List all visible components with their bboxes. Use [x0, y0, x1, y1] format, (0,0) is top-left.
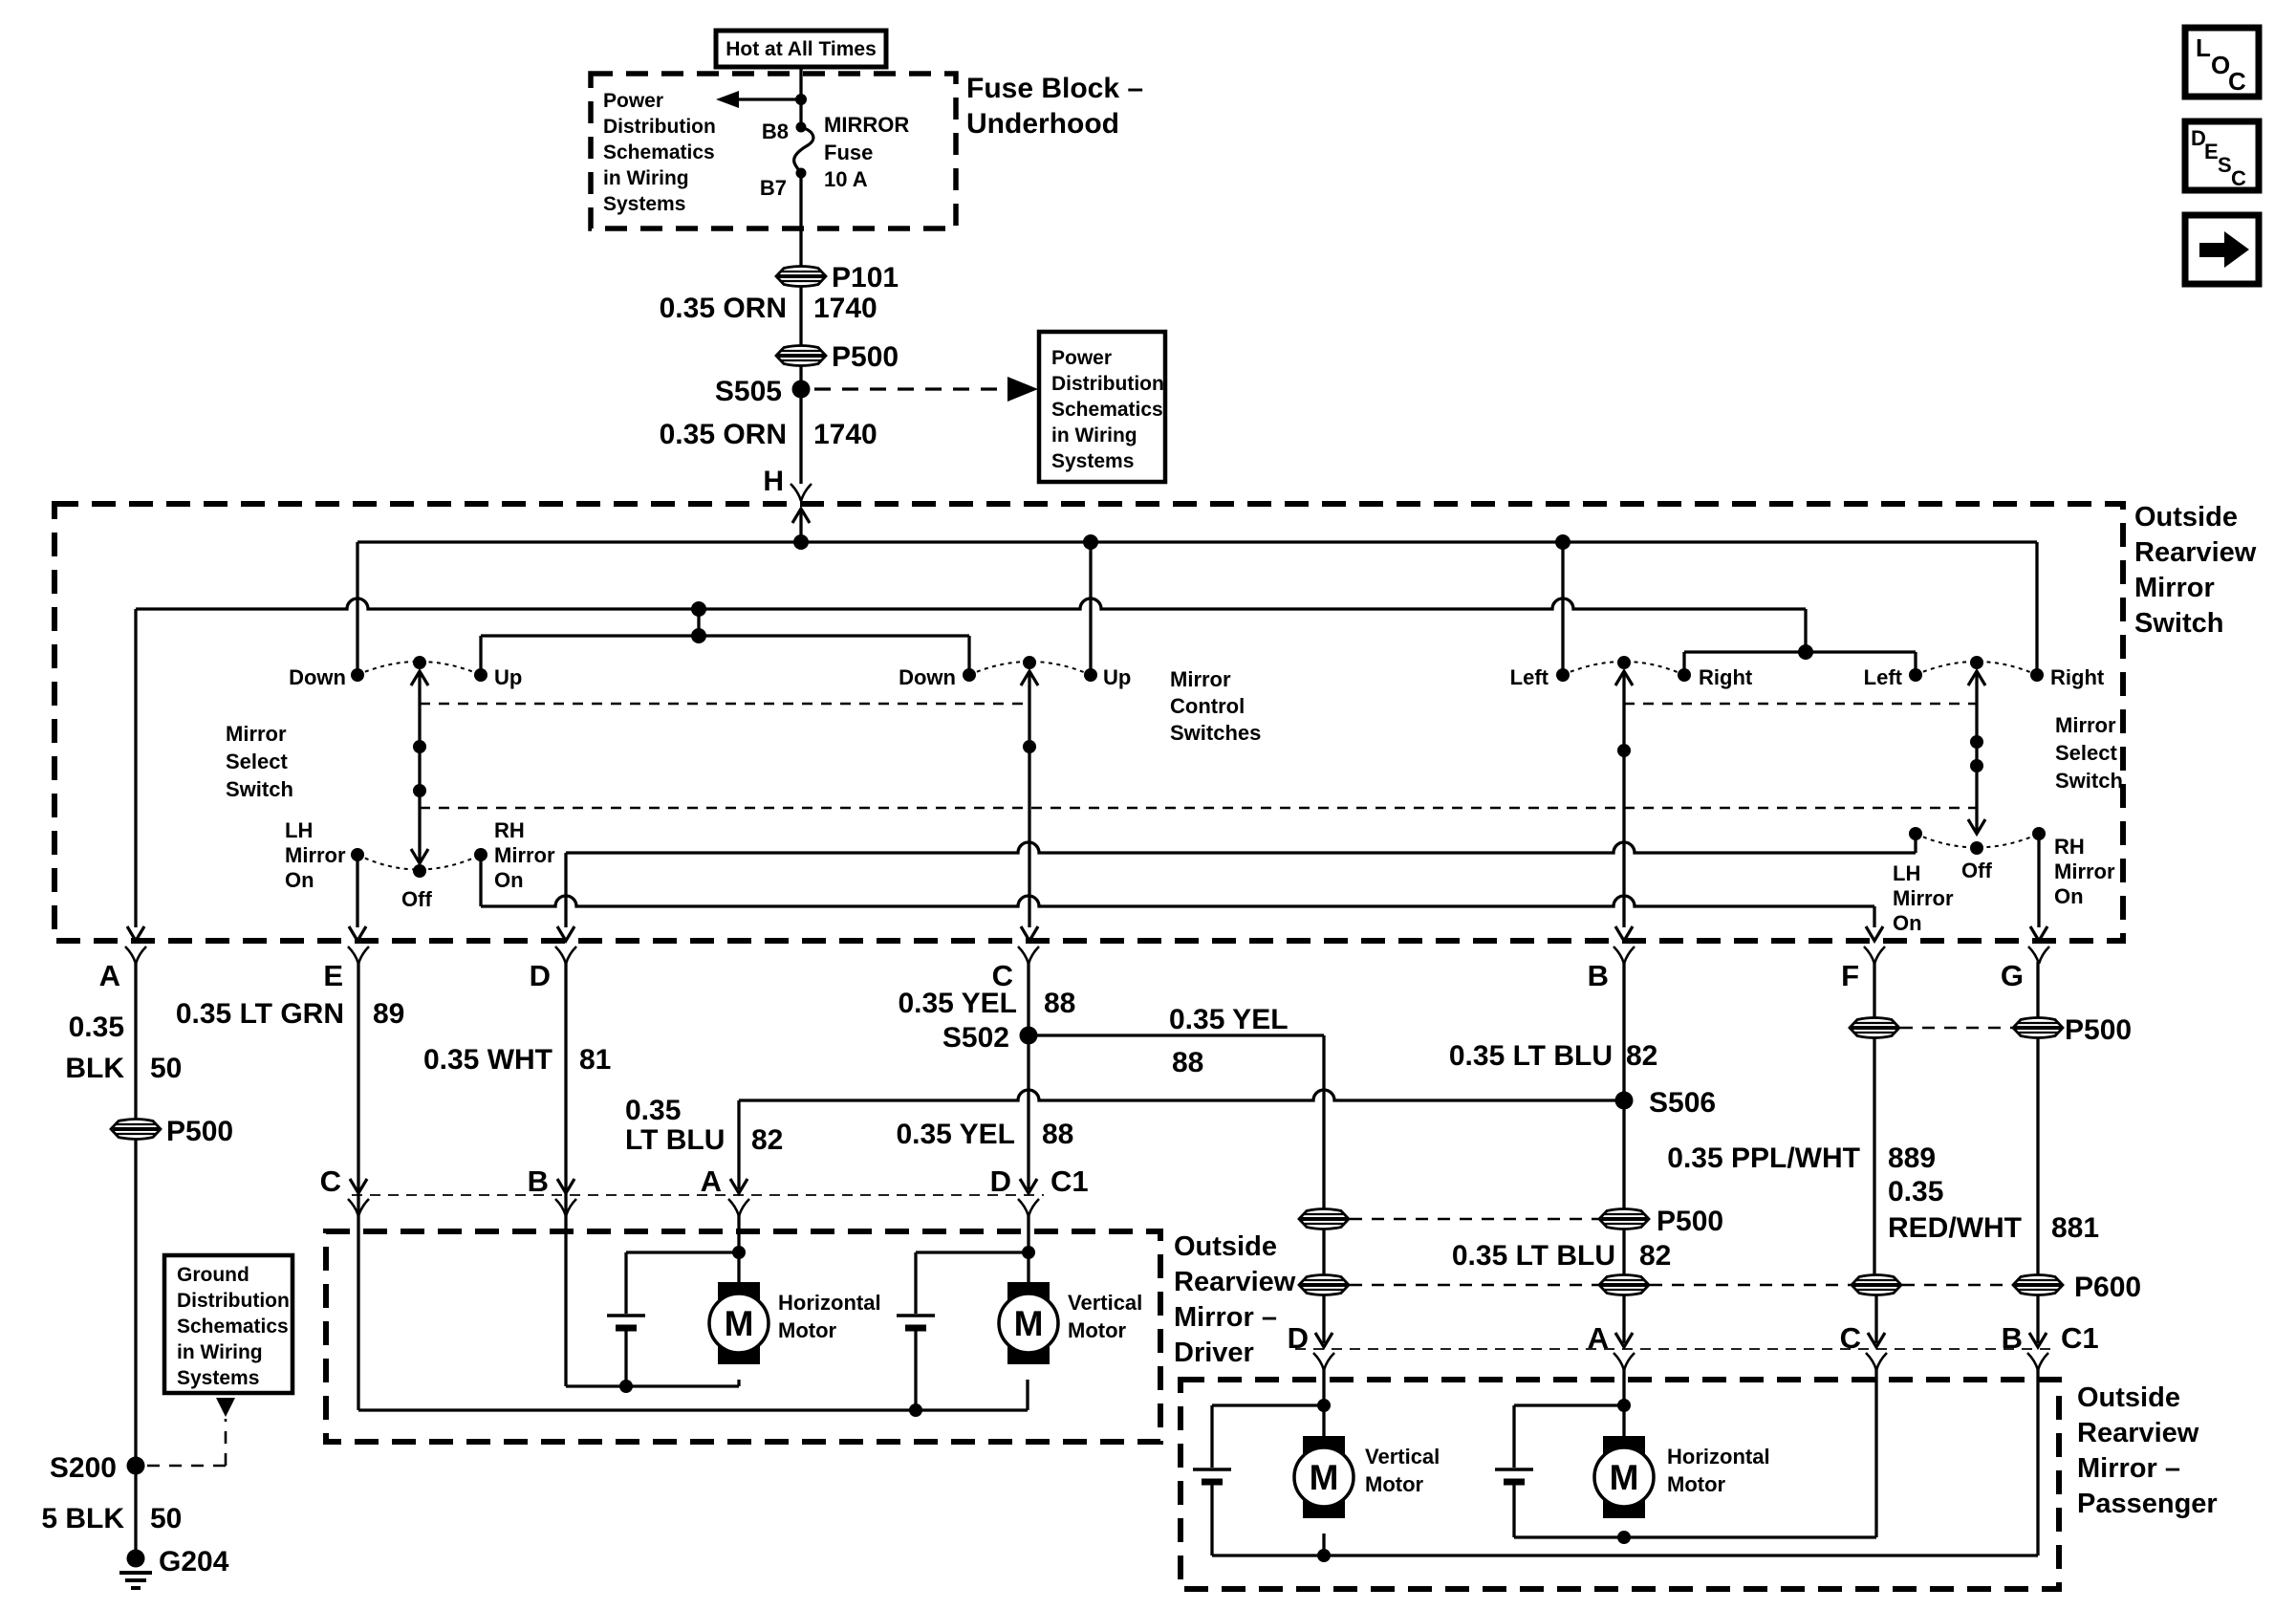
- svg-text:RH: RH: [494, 818, 525, 842]
- wire: pin D into driver box: [1027, 1212, 1029, 1283]
- svg-text:C: C: [2231, 166, 2246, 190]
- node: shaft detent 1: [413, 740, 426, 753]
- svg-text:G204: G204: [159, 1546, 229, 1577]
- pin G connector fork: [2028, 946, 2049, 964]
- svg-text:LH: LH: [285, 818, 313, 842]
- reference: S200 to Ground Distribution (dashed): [147, 1465, 226, 1468]
- svg-text:Up: Up: [494, 665, 522, 689]
- pin A exit arrow: [127, 926, 144, 941]
- svg-text:C1: C1: [1051, 1164, 1089, 1198]
- svg-text:Schematics: Schematics: [1051, 399, 1163, 421]
- svg-text:Outside: Outside: [2077, 1382, 2180, 1413]
- svg-text:On: On: [2054, 884, 2084, 908]
- svg-text:C: C: [1840, 1321, 1861, 1355]
- wire: 0.35 WHT 81 (pin D to driver mirror pin B): [564, 962, 567, 1189]
- outside rearview mirror driver (dashed box): [326, 1231, 1160, 1442]
- node: motor/sensor junction (pass horiz): [1617, 1399, 1631, 1412]
- pin H connector halves at switch boundary: [791, 484, 812, 501]
- wire: lower bus right end down to sw3/sw4 tie: [1804, 609, 1807, 652]
- switch: mirror control sw2 Up contact: [1084, 668, 1097, 682]
- svg-text:Hot at All Times: Hot at All Times: [726, 38, 877, 60]
- wire: 0.35 YEL 88 (pin C down): [1027, 962, 1029, 1189]
- svg-text:B: B: [528, 1164, 549, 1198]
- wire: 0.35 LT BLU 82 (S506 to driver mirror pin A): [739, 1090, 1624, 1100]
- wire: 0.35 PPL/WHT 889 (pin F down): [1873, 962, 1875, 1275]
- svg-text:5 BLK: 5 BLK: [41, 1503, 124, 1534]
- svg-text:Mirror: Mirror: [226, 722, 287, 746]
- wire: YEL branch P500 to P600: [1322, 1229, 1325, 1275]
- wire: sensor to common rail (driver horiz): [624, 1328, 627, 1386]
- connector P600 on YEL branch: [1299, 1275, 1349, 1295]
- svg-text:RH: RH: [2054, 835, 2085, 859]
- switch: sw4 wiper shaft (double arrow): [1975, 674, 1978, 831]
- wire: upper bus drop to Right contact (sw4): [2035, 542, 2038, 669]
- svg-text:Switch: Switch: [2134, 608, 2223, 639]
- svg-text:0.35 ORN: 0.35 ORN: [660, 419, 787, 450]
- switch: mirror control sw1 Down contact: [351, 668, 364, 682]
- junction: power distribution branch node: [795, 94, 807, 105]
- splice S505: [792, 381, 811, 399]
- switch: mirror control sw2 pivot: [1023, 656, 1036, 669]
- svg-text:Schematics: Schematics: [603, 141, 715, 163]
- svg-text:82: 82: [1626, 1040, 1657, 1072]
- mechanical link control switches 1-2 (dashed): [420, 703, 1029, 706]
- wire: lower bus to pin A: [136, 598, 1806, 609]
- svg-text:0.35 ORN: 0.35 ORN: [660, 293, 787, 324]
- connector P101: [776, 267, 826, 287]
- wire: driver horiz motor common rail: [564, 1189, 567, 1386]
- wire: 0.35 LT GRN 89 (pin E to driver mirror pin C): [357, 962, 359, 1410]
- svg-text:Fuse: Fuse: [824, 141, 873, 164]
- wire: RH Mirror On (right) to pin G: [2037, 834, 2040, 927]
- pin E connector fork: [348, 946, 369, 964]
- reference dashes P600 row: [1350, 1284, 1598, 1287]
- pin B exit arrow: [1615, 926, 1633, 941]
- svg-text:Rearview: Rearview: [1174, 1267, 1296, 1297]
- passenger mirror pin D (arrow+fork): [1315, 1333, 1332, 1347]
- pin F exit arrow: [1866, 926, 1883, 941]
- pin D connector fork: [555, 946, 576, 964]
- svg-text:Mirror: Mirror: [494, 843, 555, 867]
- switch: sw4 rocker arc: [1916, 662, 2037, 675]
- svg-text:D: D: [990, 1164, 1011, 1198]
- svg-text:Fuse Block –: Fuse Block –: [966, 73, 1143, 104]
- svg-text:S506: S506: [1649, 1087, 1716, 1119]
- svg-text:50: 50: [150, 1053, 182, 1084]
- svg-text:0.35: 0.35: [625, 1095, 681, 1126]
- svg-text:P101: P101: [832, 262, 899, 294]
- svg-text:Passenger: Passenger: [2077, 1489, 2218, 1519]
- connector P600 on RED/WHT: [2013, 1275, 2063, 1295]
- wire: RH Mirror On (left) to pin F (long run): [479, 855, 482, 906]
- wire: junction to sensor (pass horiz): [1514, 1403, 1624, 1406]
- svg-text:P600: P600: [2074, 1272, 2141, 1303]
- switch: sw1 wiper shaft (double arrow): [418, 674, 421, 860]
- switch: sw2 rocker arc: [969, 662, 1091, 675]
- svg-text:Off: Off: [1961, 859, 1992, 882]
- svg-text:0.35 YEL: 0.35 YEL: [898, 988, 1017, 1019]
- svg-text:Right: Right: [1699, 665, 1753, 689]
- motor: Vertical Motor (passenger): [1303, 1436, 1345, 1455]
- svg-text:Left: Left: [1864, 665, 1903, 689]
- svg-text:81: 81: [579, 1044, 611, 1076]
- svg-text:Up: Up: [1103, 665, 1131, 689]
- switch: mirror control sw3 pivot: [1617, 656, 1631, 669]
- node: junction to Up contact (mirror control sw 2): [1083, 534, 1098, 550]
- svg-text:Outside: Outside: [2134, 502, 2238, 533]
- wire: upper bus drop to Down contact (sw1): [356, 542, 358, 669]
- reference dash between P500 halves (F-G): [1900, 1027, 2012, 1030]
- svg-text:M: M: [725, 1304, 754, 1343]
- svg-text:0.35 LT BLU: 0.35 LT BLU: [1452, 1240, 1615, 1272]
- svg-text:Mirror: Mirror: [2055, 713, 2116, 737]
- driver mirror pin A (arrow+fork): [730, 1179, 747, 1193]
- motor: Horizontal Motor (driver): [718, 1282, 760, 1301]
- svg-text:Rearview: Rearview: [2134, 537, 2257, 568]
- svg-text:Vertical: Vertical: [1365, 1445, 1440, 1469]
- mechanical link select switches (dashed): [420, 807, 1977, 810]
- switch: mirror control sw1 Up contact: [474, 668, 487, 682]
- svg-text:Motor: Motor: [1068, 1318, 1127, 1342]
- wire: pin A into passenger box: [1622, 1366, 1625, 1436]
- splice S506: [1615, 1092, 1634, 1110]
- svg-text:Rearview: Rearview: [2077, 1418, 2199, 1448]
- svg-text:Control: Control: [1170, 694, 1245, 718]
- node: tie line junction: [691, 628, 706, 643]
- node: rail junction (driver vert): [909, 1403, 922, 1417]
- svg-text:MIRROR: MIRROR: [824, 113, 909, 137]
- connector P500 on F wire: [1850, 1018, 1899, 1038]
- svg-text:L: L: [2196, 33, 2211, 62]
- svg-text:Mirror: Mirror: [2134, 573, 2215, 603]
- svg-text:1740: 1740: [813, 419, 877, 450]
- ground G204: [127, 1550, 145, 1568]
- svg-text:B8: B8: [762, 120, 789, 143]
- wire: driver vert motor common rail: [358, 1408, 1028, 1411]
- switch: select arc (left): [357, 855, 481, 870]
- svg-text:Systems: Systems: [1051, 450, 1134, 472]
- svg-text:88: 88: [1044, 988, 1075, 1019]
- svg-text:Schematics: Schematics: [177, 1316, 289, 1338]
- wire: tie line Right(sw3) to Left(sw4): [1684, 650, 1916, 653]
- svg-text:Motor: Motor: [778, 1318, 837, 1342]
- svg-text:0.35 LT GRN: 0.35 LT GRN: [176, 998, 344, 1030]
- wire: 0.35 LT BLU 82 (switch pin B down through S506): [1622, 962, 1625, 1209]
- svg-text:S505: S505: [715, 376, 782, 407]
- svg-text:Distribution: Distribution: [177, 1290, 290, 1312]
- svg-text:A: A: [1588, 1321, 1609, 1355]
- pin A connector fork: [125, 946, 146, 964]
- svg-text:82: 82: [1639, 1240, 1671, 1272]
- svg-text:Mirror: Mirror: [2054, 859, 2115, 883]
- svg-text:Horizontal: Horizontal: [778, 1291, 881, 1315]
- driver mirror pin C (arrow+fork): [350, 1179, 367, 1193]
- svg-text:82: 82: [751, 1124, 783, 1156]
- svg-text:B: B: [2002, 1321, 2023, 1355]
- svg-text:Horizontal: Horizontal: [1667, 1445, 1770, 1469]
- passenger mirror connector boundary (thin dashed): [1295, 1348, 2050, 1350]
- reference arrow: S505 to Power Distribution Schematics: [814, 387, 1004, 390]
- svg-text:Outside: Outside: [1174, 1231, 1277, 1262]
- switch: sw1 rocker arc: [357, 662, 481, 675]
- svg-text:A: A: [99, 959, 120, 992]
- switch: select arc (right): [1916, 834, 2039, 848]
- connector P500 (power feed): [776, 346, 826, 366]
- svg-text:Motor: Motor: [1365, 1472, 1424, 1496]
- svg-text:D: D: [1288, 1321, 1309, 1355]
- svg-text:S: S: [2218, 153, 2232, 177]
- node: lower bus junction to rocker feed: [691, 601, 706, 617]
- node: motor/sensor junction (pass vert): [1317, 1399, 1331, 1412]
- wire: lower bus drop to pin A: [134, 609, 137, 927]
- wire: upper bus drop to Left contact (sw3): [1561, 542, 1564, 669]
- svg-text:B7: B7: [760, 176, 787, 200]
- svg-text:On: On: [1893, 911, 1922, 935]
- wire: sw2 wiper to pin C: [1028, 674, 1030, 927]
- fuse MIRROR 10A (element and terminals B8/B7): [796, 122, 807, 133]
- icon button: DESC: [2185, 121, 2259, 190]
- svg-text:Switch: Switch: [226, 777, 293, 801]
- wire: bus from pin H across switch (upper bus): [357, 540, 2037, 543]
- connector P500 on G wire: [2013, 1018, 2063, 1038]
- wire: upper bus drop to Up contact (sw2): [1089, 542, 1092, 669]
- svg-text:Down: Down: [899, 665, 956, 689]
- splice S502: [1020, 1027, 1038, 1045]
- svg-text:50: 50: [150, 1503, 182, 1534]
- driver mirror pin D (arrow+fork): [1020, 1179, 1037, 1193]
- svg-text:Left: Left: [1510, 665, 1549, 689]
- svg-text:889: 889: [1888, 1142, 1936, 1174]
- svg-text:Systems: Systems: [177, 1367, 259, 1389]
- svg-text:0.35: 0.35: [69, 1012, 124, 1043]
- svg-text:E: E: [323, 959, 343, 992]
- switch: select sw LH Mirror On contact (left): [351, 848, 364, 861]
- node: motor/position-sensor junction (driver horiz): [732, 1246, 746, 1259]
- node: tie junction sw3/sw4: [1798, 644, 1813, 660]
- switch: mirror control sw3 Left contact: [1556, 668, 1570, 682]
- svg-text:Motor: Motor: [1667, 1472, 1726, 1496]
- wire: P500 to splice S505: [799, 365, 802, 389]
- svg-text:Switch: Switch: [2055, 769, 2123, 793]
- switch: mirror control sw2 Down contact: [963, 668, 976, 682]
- svg-text:C: C: [320, 1164, 341, 1198]
- svg-text:Off: Off: [401, 887, 432, 911]
- svg-text:B: B: [1588, 959, 1609, 992]
- reference dash between P500 halves (driver): [1350, 1218, 1598, 1221]
- svg-text:0.35 PPL/WHT: 0.35 PPL/WHT: [1667, 1142, 1860, 1174]
- wire: tie line Up(sw1) to Down(sw2): [481, 634, 969, 637]
- svg-text:0.35: 0.35: [1888, 1176, 1943, 1207]
- wire: junction to sensor (driver vert): [916, 1251, 1029, 1253]
- node: rail junction (driver horiz): [619, 1380, 633, 1393]
- svg-text:0.35 YEL: 0.35 YEL: [896, 1119, 1015, 1150]
- switch: mirror control sw4 Right contact: [2030, 668, 2044, 682]
- wire: branch to power distribution schematics (left arrow): [737, 98, 801, 100]
- label box: Ground Distribution Schematics in Wiring Systems: [164, 1255, 292, 1393]
- svg-text:S200: S200: [50, 1452, 117, 1484]
- svg-text:D: D: [530, 959, 551, 992]
- switch: sw3 rocker arc: [1563, 662, 1684, 675]
- motor: Vertical Motor (driver): [1007, 1282, 1050, 1301]
- switch: select sw RH Mirror On contact (right): [2032, 827, 2046, 840]
- wire: pin A into driver box: [737, 1212, 740, 1283]
- svg-text:P500: P500: [2065, 1014, 2132, 1046]
- switch: select sw LH Mirror On contact (right): [1909, 827, 1922, 840]
- svg-text:Mirror: Mirror: [1170, 667, 1231, 691]
- svg-text:Distribution: Distribution: [1051, 373, 1164, 395]
- svg-text:Mirror: Mirror: [1893, 886, 1954, 910]
- position sensor cell (driver horiz): [607, 1314, 645, 1317]
- wire: battery feed from Hot at All Times into fuse block: [799, 67, 802, 125]
- outside rearview mirror passenger (dashed box): [1180, 1380, 2059, 1589]
- wire: 0.35 ORN 1740 (S505 to switch pin H): [799, 389, 802, 484]
- wire: LH Mirror On contact to pin E: [356, 855, 358, 927]
- wire: fuse B7 down to connector P101: [799, 173, 802, 267]
- switch: select sw Off contact (right): [1970, 841, 1983, 855]
- pin G exit arrow: [2030, 926, 2047, 941]
- svg-text:Power: Power: [1051, 347, 1112, 369]
- position sensor cell (driver vert): [897, 1314, 935, 1317]
- svg-text:0.35 YEL: 0.35 YEL: [1169, 1004, 1289, 1035]
- svg-text:LH: LH: [1893, 861, 1920, 885]
- node: sw2 shaft detent: [1023, 740, 1036, 753]
- svg-text:Underhood: Underhood: [966, 108, 1119, 140]
- wire: sensor to motor rail (pass horiz): [1512, 1482, 1515, 1537]
- svg-text:On: On: [494, 868, 524, 892]
- switch: mirror control sw4 pivot: [1970, 656, 1983, 669]
- svg-text:LT BLU: LT BLU: [625, 1124, 725, 1156]
- svg-text:Mirror –: Mirror –: [2077, 1453, 2180, 1484]
- label: Hot at All Times box: [716, 31, 886, 67]
- wire: sensor to bottom rail (pass vert): [1210, 1482, 1213, 1556]
- wire: passenger horiz motor rail: [1514, 1535, 1876, 1538]
- pin C exit arrow: [1021, 926, 1038, 941]
- svg-text:Vertical: Vertical: [1068, 1291, 1142, 1315]
- node: sw4 shaft detent 1: [1970, 735, 1983, 749]
- svg-text:S502: S502: [942, 1022, 1009, 1054]
- wire: pin D into passenger box: [1322, 1366, 1325, 1436]
- svg-text:RED/WHT: RED/WHT: [1888, 1212, 2022, 1244]
- wire: junction to sensor (pass vert): [1212, 1403, 1324, 1406]
- connector P500 (on BLK 50): [111, 1120, 161, 1140]
- node: motor/sensor junction (driver vert): [1022, 1246, 1035, 1259]
- wire: P600 to passenger mirror pins: [1322, 1295, 1325, 1343]
- node: H feed junction on upper bus: [793, 534, 809, 550]
- svg-text:Down: Down: [289, 665, 346, 689]
- pin D exit arrow: [557, 926, 574, 941]
- svg-text:M: M: [1310, 1458, 1339, 1497]
- svg-text:G: G: [2001, 959, 2024, 992]
- connector P600 on PPL/WHT: [1852, 1275, 1901, 1295]
- driver mirror connector boundary (thin dashed): [352, 1194, 1044, 1196]
- wire: stub junction to Up1/Down2 tie line: [697, 609, 700, 636]
- svg-text:Systems: Systems: [603, 193, 685, 215]
- svg-text:P500: P500: [832, 341, 899, 373]
- svg-text:A: A: [701, 1164, 722, 1198]
- pin E exit arrow: [349, 926, 366, 941]
- svg-text:Right: Right: [2050, 665, 2105, 689]
- svg-text:Mirror: Mirror: [285, 843, 346, 867]
- svg-text:Switches: Switches: [1170, 721, 1261, 745]
- svg-text:Distribution: Distribution: [603, 116, 716, 138]
- connector P500 on LT BLU 82: [1599, 1209, 1649, 1229]
- switch: mirror control sw3 Right contact: [1678, 668, 1691, 682]
- icon button: LOC: [2185, 28, 2259, 97]
- svg-text:Select: Select: [2055, 741, 2117, 765]
- mechanical link control switches 3-4 (dashed): [1624, 703, 1977, 706]
- position sensor cell (pass vert): [1193, 1468, 1231, 1471]
- switch: select sw Off contact (left): [413, 864, 426, 878]
- passenger mirror pin C (arrow+fork): [1868, 1333, 1885, 1347]
- wire: junction to sensor (driver horiz): [626, 1251, 739, 1253]
- pin F connector fork: [1864, 946, 1885, 964]
- connector P500 on YEL 88 branch: [1299, 1209, 1349, 1229]
- svg-text:C: C: [2228, 67, 2246, 96]
- switch: select sw RH Mirror On contact (left): [474, 848, 487, 861]
- svg-text:in Wiring: in Wiring: [177, 1341, 263, 1363]
- label box: Power Distribution Schematics in Wiring Systems (right): [1039, 332, 1165, 482]
- wire: LT BLU P500 to P600: [1622, 1229, 1625, 1275]
- svg-text:P500: P500: [166, 1116, 233, 1147]
- outside rearview mirror switch (dashed box): [54, 504, 2123, 941]
- svg-text:10 A: 10 A: [824, 167, 868, 191]
- wire: 5 BLK 50 (S200 to ground): [134, 1466, 137, 1553]
- svg-text:BLK: BLK: [65, 1053, 124, 1084]
- passenger mirror pin A (arrow+fork): [1615, 1333, 1633, 1347]
- svg-text:On: On: [285, 868, 314, 892]
- switch: mirror control sw4 Left contact: [1909, 668, 1922, 682]
- node: rail junction (pass vert): [1317, 1549, 1331, 1562]
- svg-text:M: M: [1014, 1304, 1044, 1343]
- svg-text:0.35 LT BLU: 0.35 LT BLU: [1449, 1040, 1613, 1072]
- svg-text:Ground: Ground: [177, 1264, 249, 1286]
- svg-text:M: M: [1610, 1458, 1639, 1497]
- svg-text:C1: C1: [2061, 1321, 2099, 1355]
- svg-text:in Wiring: in Wiring: [603, 167, 689, 189]
- position sensor cell (pass horiz): [1495, 1468, 1533, 1471]
- splice S200: [127, 1457, 145, 1475]
- driver mirror pin B (arrow+fork): [557, 1179, 574, 1193]
- node: junction to Left contact (mirror control sw 3): [1555, 534, 1570, 550]
- svg-text:0.35 WHT: 0.35 WHT: [423, 1044, 552, 1076]
- svg-text:Power: Power: [603, 90, 663, 112]
- node: rail junction (pass horiz): [1617, 1531, 1631, 1544]
- svg-text:Driver: Driver: [1174, 1338, 1254, 1368]
- svg-text:Select: Select: [226, 750, 288, 773]
- wire: sensor to common rail (driver vert): [914, 1328, 917, 1410]
- wire: sw3 wiper to pin B: [1622, 674, 1625, 927]
- svg-text:Mirror –: Mirror –: [1174, 1302, 1277, 1333]
- pin B connector fork: [1614, 946, 1635, 964]
- motor: Horizontal Motor (passenger): [1603, 1436, 1645, 1455]
- node: shaft detent 2: [413, 784, 426, 797]
- node: sw4 shaft detent 2: [1970, 759, 1983, 772]
- icon button: next arrow: [2185, 215, 2259, 284]
- svg-text:1740: 1740: [813, 293, 877, 324]
- fuse block - underhood (dashed box): [591, 74, 956, 228]
- passenger mirror pin B (arrow+fork): [2029, 1333, 2047, 1347]
- wire: 0.35 BLK 50 circuit (pin A down): [134, 962, 137, 1457]
- switch: mirror control sw1 pivot: [413, 656, 426, 669]
- connector P600 on LT BLU: [1599, 1275, 1649, 1295]
- svg-text:881: 881: [2051, 1212, 2099, 1244]
- svg-text:88: 88: [1172, 1047, 1203, 1078]
- svg-text:in Wiring: in Wiring: [1051, 424, 1137, 446]
- svg-text:88: 88: [1042, 1119, 1073, 1150]
- wire: 0.35 RED/WHT 881 (pin G down): [2036, 962, 2039, 1275]
- node: sw3 shaft detent: [1617, 744, 1631, 757]
- svg-text:F: F: [1841, 959, 1859, 992]
